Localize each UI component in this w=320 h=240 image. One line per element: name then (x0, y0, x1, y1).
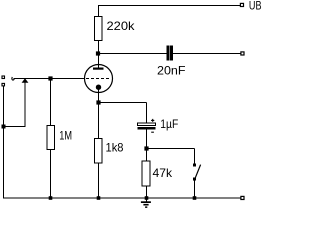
wire node A to coupling cap (98, 53, 167, 55)
capacitor C2 minus sign (151, 131, 154, 133)
input wire curl (12, 77, 15, 80)
UB terminal (240, 3, 243, 6)
wire bypass cap bottom lead to 47k (146, 130, 148, 162)
ground bar 2 (143, 204, 148, 206)
wire bottom rail (3, 197, 241, 199)
grid/1M junction dot (48, 76, 52, 80)
bottom rail switch junction dot (193, 196, 197, 200)
wire cathode junction to bypass cap (99, 102, 147, 104)
switch S1 top contact (193, 164, 196, 167)
svg-text:UB: UB (249, 0, 262, 13)
wire left column vertical (3, 86, 5, 198)
left column junction dot (2, 125, 6, 129)
wire cap to output terminal (173, 53, 242, 55)
wire 47k bottom lead to ground (146, 186, 148, 202)
resistor R1 220k (95, 17, 103, 41)
capacitor C2 1uF positive plate (138, 123, 156, 125)
wire top rail UB (98, 5, 241, 7)
bypass cap junction dot (144, 146, 148, 150)
capacitor C2 1uF negative plate (138, 127, 156, 130)
wire grid lead (14, 78, 85, 80)
svg-text:220k: 220k (107, 19, 136, 33)
wire bypass cap top lead (146, 103, 148, 123)
bottom rail 1M junction dot (49, 196, 53, 200)
wire 1M top lead (50, 78, 52, 126)
resistor R4 47k (142, 161, 150, 186)
switch S1 blade (194, 165, 201, 181)
svg-text:1k8: 1k8 (106, 141, 124, 155)
wire cap junction to switch (147, 148, 195, 150)
capacitor C2 plus sign (151, 119, 154, 122)
wire 1M bottom lead (50, 150, 52, 199)
wire cathode lead down to 1k8 (98, 89, 100, 139)
wire 1k8 bottom lead (98, 163, 100, 198)
input signal arrow head (22, 78, 29, 83)
node A junction dot (96, 51, 100, 55)
wire switch top lead (194, 149, 196, 165)
svg-text:20nF: 20nF (157, 64, 186, 78)
ground bar 3 (145, 206, 147, 208)
resistor R3 1k8 (95, 139, 103, 164)
bottom rail 1k8 junction dot (97, 196, 101, 200)
triode V1 anode plate (93, 68, 104, 70)
wire 220k bottom lead to node A (98, 41, 100, 68)
cathode junction dot (96, 100, 100, 104)
wire switch bottom lead (194, 180, 196, 198)
svg-text:1M: 1M (59, 129, 72, 143)
switch S1 bottom contact (193, 178, 196, 181)
resistor R2 1M (47, 126, 55, 150)
output terminal upper (241, 52, 244, 55)
svg-text:1µF: 1µF (160, 117, 178, 131)
bottom rail ground junction dot (145, 196, 149, 200)
triode V1 grid dashed line (86, 78, 111, 80)
input terminal upper (2, 76, 5, 79)
ground bar 1 (141, 201, 151, 203)
triode V1 cathode dot (96, 85, 101, 90)
triode V1 envelope (85, 65, 113, 93)
input terminal lower (2, 83, 5, 86)
wire 220k top lead (98, 5, 100, 17)
output terminal lower (241, 196, 244, 199)
wire arrow stem to left column (3, 126, 26, 128)
capacitor C1 20nF right plate (170, 46, 172, 60)
wire arrow stem (24, 83, 26, 127)
capacitor C1 20nF left plate (167, 46, 169, 60)
svg-text:47k: 47k (153, 166, 173, 180)
